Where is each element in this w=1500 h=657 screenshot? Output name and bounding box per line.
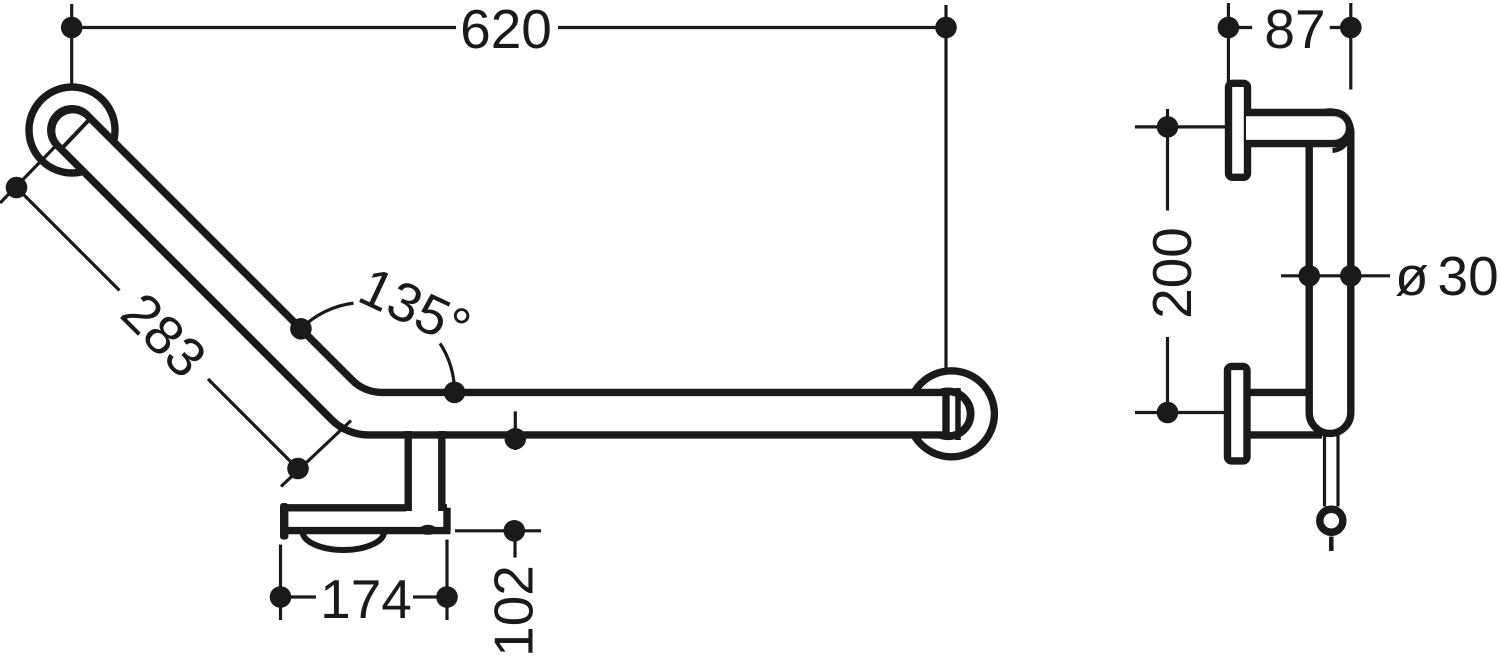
right wall flange outer circle — [908, 371, 994, 457]
bar top cap arc peeking below arm — [1333, 141, 1348, 151]
grab bar seen in profile — [1309, 112, 1351, 433]
paper holder pin right edge (side view) — [1336, 434, 1339, 507]
svg-text:200: 200 — [1141, 227, 1203, 319]
dim 87 line left segment — [1228, 26, 1252, 29]
dim 174 right dot — [436, 586, 458, 608]
dim 102 dot at bar bottom edge — [505, 428, 527, 450]
paper holder pin detail — [420, 525, 437, 535]
dim 102 line upper segment — [513, 541, 516, 558]
dim 200 bottom dot — [1157, 402, 1179, 424]
dim 283 extension line at bend — [281, 421, 351, 487]
svg-text:102: 102 — [483, 565, 545, 657]
dim 283 line upper segment — [17, 188, 120, 291]
left wall flange outer circle — [29, 87, 115, 173]
dim dia30 right dot — [1340, 265, 1362, 287]
dim 87 left dot — [1218, 17, 1240, 39]
dim 283 lower dot — [287, 458, 309, 480]
135 deg angle arc segment 1 — [301, 303, 354, 329]
dim 102 dot at holder bottom — [504, 520, 526, 542]
dim 87 left extension line — [1227, 3, 1230, 82]
dim 620 line left segment — [83, 26, 457, 29]
left flange collar ring — [51, 109, 94, 152]
paper roll arc — [303, 532, 385, 550]
dim 174 left dot — [270, 586, 292, 608]
svg-text:ø: ø — [1395, 245, 1429, 307]
paper holder pin tip (side view) — [1329, 537, 1334, 552]
dim 200 line upper segment — [1166, 109, 1169, 211]
svg-text:620: 620 — [460, 0, 552, 60]
dim 620 left extension line — [70, 4, 73, 95]
dim 174 line right segment — [413, 595, 447, 598]
paper holder post right edge — [438, 431, 445, 511]
dim 620 right extension line — [944, 5, 947, 369]
tube end cap line 2 at right flange — [955, 388, 961, 440]
paper holder ring (side view) — [1320, 509, 1343, 532]
bottom wall flange plate (side view) — [1228, 366, 1248, 461]
dim 200 top extension line — [1135, 125, 1239, 128]
dim 87 right dot — [1340, 17, 1362, 39]
dim 200 bottom extension line — [1135, 411, 1233, 414]
135 deg angle arc segment 2 — [440, 343, 455, 392]
dim 174 right extension line — [445, 540, 448, 621]
top arm with rounded end — [1246, 113, 1350, 144]
tube end cap line 1 at right flange — [944, 389, 950, 440]
svg-text:30: 30 — [1438, 245, 1499, 307]
dim 87 right extension line — [1349, 3, 1352, 90]
135 deg dot on horizontal tube edge — [444, 382, 466, 404]
paper holder left end plate — [280, 503, 288, 540]
dim 283 line lower segment — [208, 379, 298, 469]
dim 87 line right segment — [1330, 26, 1351, 29]
dim dia30 line — [1281, 274, 1390, 277]
right flange collar ring — [926, 391, 971, 436]
tube end cap line at left flange — [63, 117, 91, 147]
dim 174 left extension line — [279, 545, 282, 621]
dim 620 line right segment — [558, 26, 936, 29]
svg-text:174: 174 — [320, 568, 412, 630]
dim 102 reference stub at bar — [514, 411, 517, 450]
paper holder bar — [286, 508, 451, 531]
dim 200 line lower segment — [1166, 337, 1169, 413]
svg-text:87: 87 — [1264, 0, 1325, 60]
dim 174 line left segment — [281, 595, 317, 598]
dim 200 top dot — [1157, 116, 1179, 138]
bottom arm top edge — [1246, 389, 1309, 396]
dim 102 extension line at holder bottom — [455, 529, 541, 532]
top wall flange plate (side view) — [1229, 83, 1248, 177]
grab bar tube (angled + horizontal run) — [52, 110, 946, 435]
dim 283 upper dot — [6, 177, 28, 199]
dim 620 right dot — [935, 17, 957, 39]
135 deg dot on angled tube edge — [290, 318, 312, 340]
dim 620 left dot — [61, 17, 83, 39]
dim 283 extension line at flange — [0, 141, 61, 204]
dim dia30 left dot — [1298, 265, 1320, 287]
bottom arm bottom edge — [1246, 431, 1322, 438]
paper holder pin left edge (side view) — [1323, 434, 1326, 507]
paper holder post left edge — [405, 431, 412, 511]
